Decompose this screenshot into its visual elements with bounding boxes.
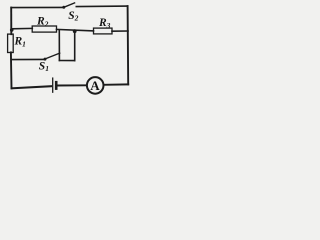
wire bottom edge right of ammeter <box>104 83 128 85</box>
node junction dot between R2 and R3 <box>73 29 77 33</box>
wire top edge left segment <box>11 6 63 8</box>
resistor R1 <box>8 34 14 52</box>
switch S1 <box>44 53 60 61</box>
wire left edge upper (top corner to R1) <box>10 8 12 35</box>
switch S2 <box>62 3 74 9</box>
wire horizontal joining the two verticals <box>59 60 74 62</box>
svg-text:A: A <box>90 78 100 93</box>
wire bottom edge between battery and ammeter <box>58 84 87 86</box>
resistor R3 <box>94 28 113 34</box>
wire vertical from R2 right side down <box>58 30 60 60</box>
wire S1 branch from left edge <box>11 58 44 60</box>
ammeter A1 circle <box>87 77 104 94</box>
wire vertical from junction dot down <box>74 31 76 60</box>
battery cell: long thin plate <box>52 78 54 92</box>
resistor R2 <box>32 26 56 32</box>
wire from R3 to right edge <box>112 30 128 32</box>
wire branch from left edge to R2 <box>12 27 33 29</box>
wire bottom edge left of battery <box>12 86 52 88</box>
wire between R2 and R3 <box>57 29 94 31</box>
battery cell: short thick plate <box>55 82 58 88</box>
wire left edge middle (R1 to bottom corner) <box>10 52 13 88</box>
node junction dot on left edge at R2 branch <box>10 28 14 32</box>
wire top edge right segment <box>76 5 127 8</box>
wire right edge <box>127 6 130 84</box>
